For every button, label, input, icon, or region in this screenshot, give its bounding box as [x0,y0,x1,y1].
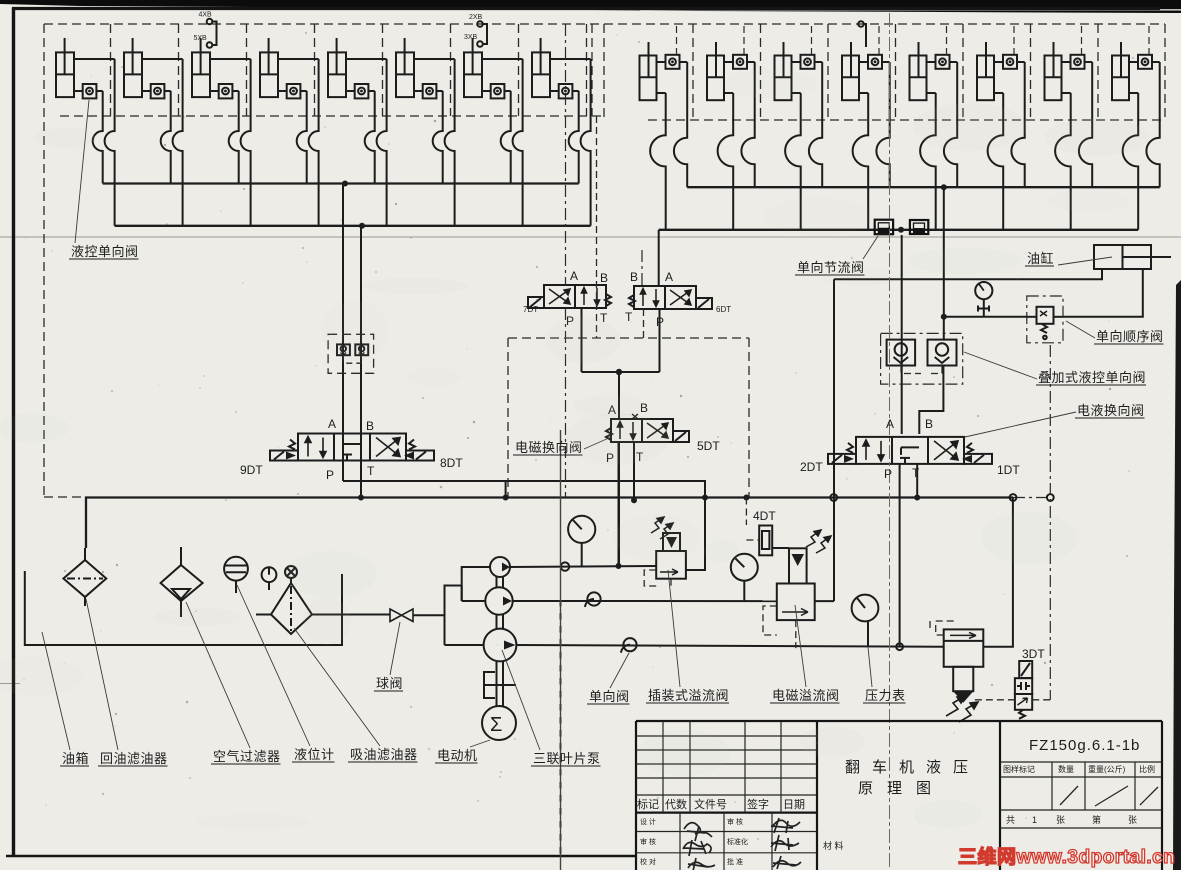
pilot-check cylinder unit L8 [532,38,591,226]
solenoid directional valve 6DT body [634,286,696,309]
svg-text:液控单向阀: 液控单向阀 [71,244,139,259]
suction manifold piping [445,567,491,645]
svg-text:3XB: 3XB [464,34,478,41]
svg-text:翻车机液压: 翻车机液压 [845,759,980,776]
svg-text:材 料: 材 料 [823,840,844,851]
dashed enclosure middle valve group [508,338,749,497]
triple vane pump P2 [485,587,512,614]
oil cylinder (you gang) [1094,245,1171,269]
svg-text:A: A [665,270,673,284]
title block outer [636,721,1162,870]
gauge G1 [568,516,595,543]
right sub table [1000,762,1162,828]
solenoid directional valve 9DT/8DT body [298,434,406,461]
svg-text:张: 张 [1128,815,1137,825]
svg-text:张: 张 [1056,815,1065,825]
svg-text:4DT: 4DT [753,509,776,523]
svg-text:2XB: 2XB [469,14,483,21]
svg-text:三维网www.3dportal.cn: 三维网www.3dportal.cn [958,845,1175,868]
svg-text:压力表: 压力表 [865,688,906,703]
one-way throttle valve pair on right bus [875,220,929,235]
svg-text:B: B [600,271,608,285]
wire 9DT P to pressure line [342,461,344,482]
port labels 6DT [625,270,731,329]
svg-text:原理图: 原理图 [858,780,945,797]
svg-text:6DT: 6DT [716,305,731,314]
air filter diamond [161,547,203,617]
suction line with ball valve [256,614,271,616]
check valve on P2 line [587,592,600,605]
pilot-check cylinder unit R7 [1045,26,1093,230]
gauge G4 with isolator [975,282,992,299]
pressure switch 1XB [858,21,864,27]
svg-text:日期: 日期 [783,798,805,811]
svg-text:A: A [886,417,894,431]
svg-text:电动机: 电动机 [437,748,478,763]
svg-text:比例: 比例 [1139,764,1155,774]
port labels 7DT [523,269,608,328]
wire rod-end line down to solenoid relief [833,279,835,601]
return filter diamond [63,548,106,606]
4DT mini solenoid valve [745,498,747,526]
suction filter diamond with breather [271,566,312,634]
svg-text:油箱: 油箱 [62,751,89,766]
wire bus to pump1 line [618,442,620,566]
pilot-check cylinder unit R1 [640,26,688,230]
dashed unit separators right group [693,24,1098,120]
svg-text:A: A [570,269,578,283]
svg-text:5DT: 5DT [697,439,720,453]
pilot-check cylinder unit L7 [464,38,523,226]
wire cylinder rod-end line [834,269,1102,279]
dashed enclosure left group [44,24,1165,497]
pilot-check cylinder unit L3 [192,38,251,226]
port labels 2DT/1DT [800,417,1020,481]
svg-text:重量(公斤): 重量(公斤) [1088,764,1126,774]
wire 5DT P/T to bus [618,442,620,566]
wire 9DT B/T-line [360,226,362,498]
inline check valve small [561,562,569,570]
svg-text:电液换向阀: 电液换向阀 [1077,403,1145,418]
oil tank [25,571,342,645]
svg-text:P: P [884,467,892,481]
svg-text:标准化: 标准化 [727,837,748,846]
pressure switch 2XB/3XB [477,21,483,27]
pilot-check cylinder unit R6 [977,26,1025,230]
svg-text:3DT: 3DT [1022,647,1045,661]
solenoid directional valve 7DT body [544,285,606,308]
svg-text:A: A [328,417,336,431]
svg-text:球阀: 球阀 [376,676,403,691]
svg-text:4XB: 4XB [199,12,213,19]
svg-text:审 核: 审 核 [640,837,656,846]
title block revision rows [636,721,817,813]
svg-text:T: T [367,464,375,478]
wire 7DT ports [565,24,567,285]
wire relief2 output [815,600,834,602]
cartridge relief valve [656,551,686,579]
check-sequence valve box [1027,296,1063,343]
right group upper bus [687,186,1159,188]
svg-text:数量: 数量 [1058,764,1074,774]
fold crease center [560,430,562,870]
solenoid pilot boxes 2DT/1DT [828,454,856,464]
svg-text:1: 1 [1032,815,1037,825]
pump shafts [497,577,504,706]
svg-text:图样标记: 图样标记 [1003,764,1035,774]
svg-text:B: B [366,419,374,433]
left group lower bus [115,225,591,227]
wire right A-line [901,235,903,434]
dashed unit separators left group [111,24,587,116]
port labels 9DT/8DT [240,417,463,482]
fold crease right [889,13,891,868]
wire right B-line via sequence tee [943,187,945,339]
svg-text:三联叶片泵: 三联叶片泵 [533,751,601,766]
svg-text:1DT: 1DT [997,463,1020,477]
left group upper bus [103,182,579,184]
svg-text:电磁溢流阀: 电磁溢流阀 [772,688,840,703]
svg-text:校 对: 校 对 [640,857,656,866]
pilot-check cylinder unit L4 [260,38,319,226]
wire relief3 output to bus [983,498,1013,647]
svg-text:油缸: 油缸 [1027,251,1054,266]
svg-text:批 准: 批 准 [727,857,743,866]
right group lower bus [659,229,1138,231]
wire 6DT ports [658,230,660,286]
pump outlet lines [510,566,656,567]
svg-text:设 计: 设 计 [640,817,656,826]
svg-text:液位计: 液位计 [294,747,335,762]
signature area [636,813,817,870]
pilot-check cylinder unit L5 [328,38,387,226]
svg-text:8DT: 8DT [440,456,463,470]
solenoid directional valve 5DT body [611,419,673,442]
svg-text:B: B [925,417,933,431]
svg-text:7DT: 7DT [523,305,538,314]
svg-text:Σ: Σ [490,714,502,736]
svg-text:回油滤油器: 回油滤油器 [100,751,168,766]
level gauge [224,557,248,593]
wire 2DT P to pump line [899,464,901,647]
svg-text:共: 共 [1006,815,1015,825]
triple vane pump P3 [484,629,517,662]
pilot check pair box left [328,334,374,373]
svg-text:文件号: 文件号 [694,797,727,811]
thermometer gauge [262,567,277,590]
gauge G3 [852,595,879,622]
solenoid directional valve 2DT/1DT body [856,437,964,464]
svg-text:空气过滤器: 空气过滤器 [213,749,281,764]
3DT solenoid valve [1019,661,1032,678]
coupling [484,672,516,698]
wire head-end vertical from bus dash [1049,345,1051,700]
svg-text:插装式溢流阀: 插装式溢流阀 [648,688,729,703]
ball valve [390,609,413,622]
pilot-check cylinder unit R5 [910,26,958,230]
handwritten signatures [683,818,801,870]
svg-text:签字: 签字 [747,797,769,811]
pressure line from 9DT P [343,481,705,498]
svg-text:第: 第 [1092,814,1101,825]
plug mark on 5DT B [632,414,638,419]
triple vane pump P1 [490,557,510,577]
svg-text:5XB: 5XB [194,35,208,42]
svg-text:单向顺序阀: 单向顺序阀 [1096,329,1164,344]
svg-text:FZ150g.6.1-1b: FZ150g.6.1-1b [1029,737,1140,754]
gauge G2 [731,554,758,581]
pilot-check cylinder unit R8 [1112,26,1160,230]
solenoid relief valve [789,548,807,583]
svg-text:叠加式液控单向阀: 叠加式液控单向阀 [1038,370,1146,385]
svg-text:代数: 代数 [665,798,687,811]
svg-text:吸油滤油器: 吸油滤油器 [350,747,418,762]
dashed enclosure right group [604,24,1165,120]
title block header row [637,797,805,811]
junction dots on buses [342,181,348,187]
svg-text:T: T [625,310,633,324]
svg-text:9DT: 9DT [240,463,263,477]
pilot-check cylinder unit R2 [707,26,755,230]
solenoid pilot boxes 9DT/8DT [270,451,298,461]
electric motor [482,706,516,740]
wire sequence valve inlet [944,316,1027,318]
check valve on P3 line [623,638,636,651]
pilot-check cylinder unit R4 [842,26,890,230]
pilot-check cylinder unit R3 [775,26,823,230]
scan artifact right edge streak [1173,280,1181,870]
svg-text:P: P [326,468,334,482]
pressure switch 4XB/5XB [207,19,213,25]
svg-text:2DT: 2DT [800,460,823,474]
port labels 5DT [606,401,720,465]
wire 9DT A-line [342,184,344,482]
wire cylinder head-end line [1063,269,1143,317]
drawing title [845,759,980,797]
pilot-check cylinder unit L2 [124,38,183,226]
svg-text:单向阀: 单向阀 [589,689,630,704]
wire P-join to 5DT [582,371,660,373]
scan artifact faint horizontal line [0,237,1181,238]
stacked pilot operated check valves [881,333,963,384]
svg-text:标记: 标记 [637,797,659,811]
svg-text:T: T [912,466,920,480]
pilot-check cylinder unit L1 [56,38,115,226]
svg-text:P: P [656,315,664,329]
wire relief output up to bus [686,498,705,571]
scan artifact top black bar [0,0,1181,13]
svg-text:审 核: 审 核 [727,817,743,826]
pilot relief valve (bottom right) [944,629,984,666]
pilot-check cylinder unit L6 [396,38,455,226]
svg-text:B: B [630,270,638,284]
main return bus [86,498,1013,549]
